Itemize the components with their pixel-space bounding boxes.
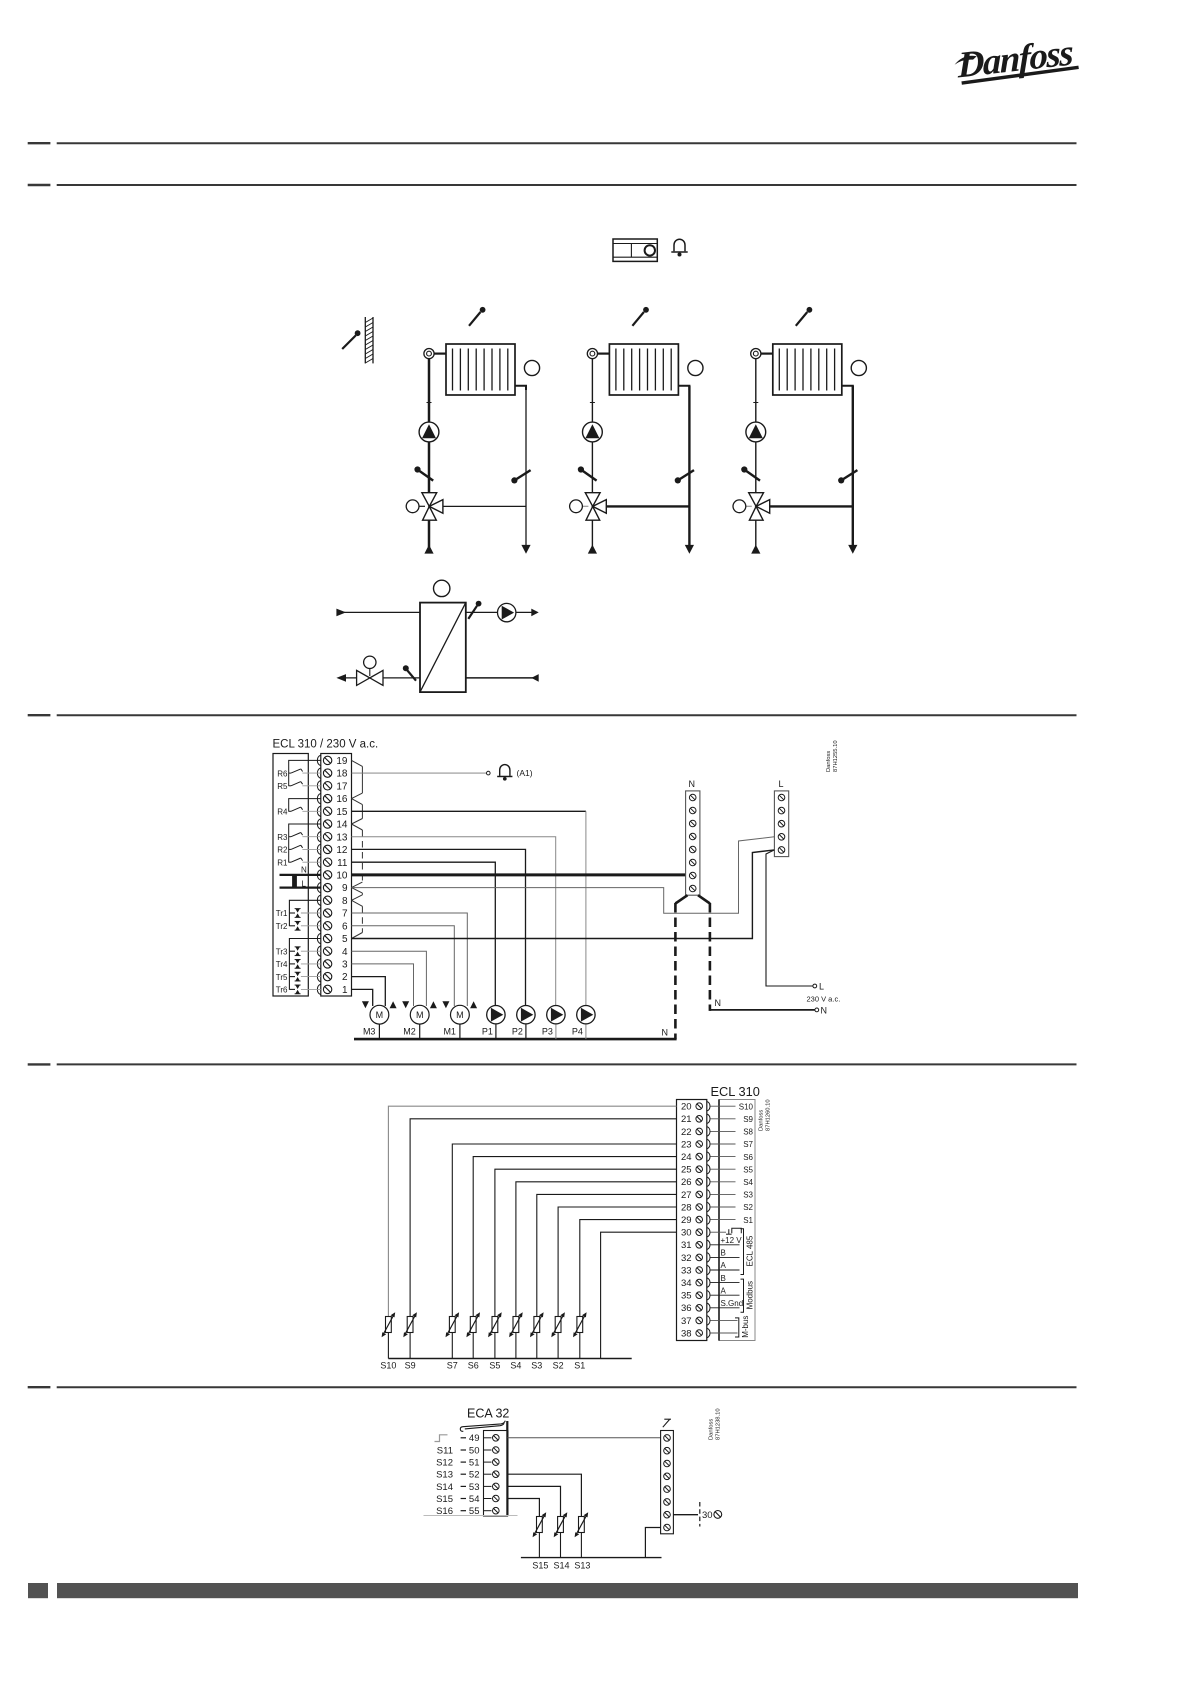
- svg-text:R2: R2: [277, 846, 288, 855]
- terminal 16: [317, 793, 348, 805]
- ECA terminal 54: [436, 1494, 499, 1505]
- svg-text:R5: R5: [277, 782, 288, 791]
- svg-text:87H1255.10: 87H1255.10: [833, 740, 839, 772]
- svg-text:18: 18: [336, 769, 348, 780]
- terminal 9: [317, 882, 348, 894]
- controller icon: [613, 239, 657, 261]
- svg-text:Tr4: Tr4: [276, 960, 288, 969]
- sensor S7: [446, 1312, 460, 1370]
- c2 return sensor on pipe: [675, 470, 694, 483]
- svg-text:M3: M3: [363, 1026, 376, 1036]
- c3 room unit: [851, 360, 866, 375]
- svg-text:R4: R4: [277, 808, 288, 817]
- Danfoss logo: [952, 32, 1079, 87]
- terminal 36: [681, 1303, 710, 1314]
- triac Tr1: [276, 909, 321, 919]
- wire 27 to sensor S3: [537, 1194, 677, 1317]
- svg-text:P1: P1: [482, 1026, 493, 1036]
- terminal 22: [681, 1127, 710, 1138]
- terminal 17: [317, 781, 348, 793]
- triac Tr3: [276, 947, 321, 957]
- terminal 18: [317, 768, 348, 780]
- svg-text:5: 5: [342, 934, 348, 945]
- svg-text:ECL 485: ECL 485: [746, 1235, 755, 1266]
- c3 valve actuator: [733, 500, 752, 513]
- sensor S14: [553, 1512, 569, 1570]
- sensor S6: [466, 1312, 480, 1370]
- room panel ground wire: [645, 1528, 660, 1558]
- ECA terminal 51: [436, 1458, 499, 1469]
- ECA terminal 53: [436, 1482, 499, 1493]
- sensor S2: [551, 1312, 565, 1370]
- wire 53 to sensor S14: [507, 1486, 560, 1517]
- io row A Modbus: [711, 1286, 740, 1295]
- actuator M3: [362, 1001, 397, 1039]
- svg-text:14: 14: [336, 820, 348, 831]
- N wire to supply: [710, 1009, 815, 1011]
- svg-text:N: N: [301, 866, 307, 875]
- svg-text:26: 26: [681, 1177, 692, 1188]
- c3 flow sensor on pipe: [741, 466, 760, 480]
- dashed separation: [699, 1502, 701, 1527]
- svg-text:16: 16: [336, 794, 348, 805]
- wire 20 to sensor S10: [388, 1106, 676, 1317]
- dhw hot water line: [466, 611, 532, 613]
- c2 flow sensor on pipe: [578, 466, 597, 480]
- svg-text:L: L: [819, 981, 824, 991]
- divider rule 5: [57, 1386, 1077, 1388]
- svg-text:ECL 310: ECL 310: [711, 1084, 760, 1099]
- io row S8: [711, 1128, 754, 1137]
- c2 pump: [583, 422, 603, 442]
- io row S7: [711, 1140, 754, 1149]
- heating circuit 1: [406, 307, 539, 554]
- svg-text:50: 50: [469, 1445, 480, 1456]
- room panel switch symbol: [663, 1419, 671, 1427]
- dhw return arrow left: [336, 674, 346, 682]
- terminal 12: [317, 844, 348, 856]
- relay box: [273, 754, 308, 997]
- wire 9 to L strip: [352, 837, 775, 914]
- svg-text:Danfoss: Danfoss: [709, 1419, 715, 1440]
- pump P4: [572, 1006, 595, 1040]
- c1 mixing valve M1: [422, 493, 443, 521]
- terminal 8: [317, 895, 348, 907]
- ECA terminal strip 49-55: [484, 1431, 508, 1517]
- svg-text:N: N: [715, 998, 722, 1008]
- svg-text:20: 20: [681, 1102, 692, 1113]
- c2 bypass line: [606, 505, 689, 507]
- dhw circulation pump: [497, 603, 516, 621]
- terminal 13: [317, 832, 348, 844]
- sensor S15: [532, 1512, 548, 1570]
- svg-text:37: 37: [681, 1316, 692, 1327]
- divider rule 5 tick: [28, 1386, 51, 1388]
- terminal strip 1-19: [321, 754, 352, 997]
- wire 6 to M1: [352, 926, 455, 1006]
- heating circuit 2: [570, 307, 703, 554]
- c3 supply pipe: [755, 359, 757, 493]
- c3 bypass line: [770, 505, 853, 507]
- c3 radiator outlet stub: [842, 386, 853, 390]
- wire 18 to alarm: [352, 772, 487, 774]
- c2 radiator outlet stub: [678, 386, 689, 390]
- actuator M1: [442, 1001, 477, 1039]
- c3 pipe tick: [753, 402, 758, 404]
- terminal 37: [681, 1316, 710, 1327]
- wire 52 to sensor S13: [507, 1474, 581, 1517]
- terminal 4: [317, 946, 348, 958]
- terminal 21: [681, 1114, 710, 1125]
- c1 flow sensor on pipe: [414, 466, 433, 480]
- svg-text:52: 52: [469, 1470, 480, 1481]
- svg-text:L: L: [779, 779, 784, 789]
- svg-text:23: 23: [681, 1139, 692, 1150]
- wire 10 N bus: [352, 873, 687, 876]
- svg-text:S15: S15: [532, 1561, 548, 1571]
- svg-text:S12: S12: [436, 1458, 453, 1469]
- svg-text:R1: R1: [277, 858, 288, 867]
- svg-text:Danfoss: Danfoss: [759, 1110, 765, 1131]
- wire 49 to room panel: [507, 1437, 660, 1439]
- c1 supply pipe: [428, 359, 431, 493]
- svg-text:S15: S15: [436, 1494, 453, 1505]
- triac Tr4: [276, 960, 321, 970]
- terminal 2: [317, 971, 348, 983]
- c1 pump: [419, 422, 439, 442]
- c2 radiator: [609, 344, 678, 395]
- mains N line: [280, 874, 321, 876]
- room panel strip: [661, 1431, 674, 1534]
- svg-text:Danfoss: Danfoss: [826, 751, 832, 772]
- sensor S9: [403, 1312, 417, 1370]
- terminal 20: [681, 1101, 710, 1112]
- c3 radiator: [773, 344, 842, 395]
- ECA terminal 52: [436, 1470, 499, 1481]
- svg-text:17: 17: [336, 781, 348, 792]
- wire 25 to sensor S5: [495, 1169, 677, 1317]
- svg-text:11: 11: [337, 858, 348, 869]
- c2 mixing valve M2: [585, 493, 606, 521]
- terminal 1: [317, 984, 348, 996]
- c2 return arrow: [685, 545, 694, 554]
- svg-text:S11: S11: [437, 1445, 453, 1456]
- alarm bell A1: [497, 765, 512, 781]
- c3 return arrow: [848, 545, 857, 554]
- c1 flow sensor: [469, 307, 486, 326]
- ECA terminal 55: [436, 1506, 499, 1517]
- c2 supply arrow: [588, 545, 597, 554]
- svg-text:+12 V: +12 V: [721, 1236, 743, 1245]
- terminal 6: [317, 921, 348, 933]
- N strip split diagonals: [675, 895, 687, 903]
- svg-text:2: 2: [342, 972, 348, 983]
- svg-text:N: N: [662, 1028, 669, 1038]
- relay contact R3: [277, 833, 321, 842]
- svg-text:S13: S13: [436, 1470, 453, 1481]
- wire 13 to P3: [352, 837, 556, 1006]
- io row B ECL485: [711, 1249, 740, 1258]
- outdoor sensor S1: [342, 330, 360, 349]
- wire 54 to sensor S15: [507, 1499, 539, 1518]
- io row A ECL485: [711, 1261, 740, 1270]
- terminal strip 20-38: [677, 1100, 707, 1341]
- wire 28 to sensor S2: [558, 1207, 676, 1317]
- svg-text:8: 8: [342, 896, 348, 907]
- dhw supply arrow: [336, 609, 346, 617]
- terminal 30: [681, 1227, 710, 1238]
- svg-text:51: 51: [469, 1458, 480, 1469]
- bracket ECL 485: [741, 1229, 744, 1275]
- svg-text:Tr2: Tr2: [276, 922, 288, 931]
- sensor S5: [488, 1312, 502, 1370]
- svg-text:ECA 32: ECA 32: [467, 1407, 509, 1421]
- io row S5: [711, 1165, 754, 1174]
- svg-text:10: 10: [336, 871, 348, 882]
- svg-text:A: A: [721, 1286, 727, 1295]
- c3 air vent: [751, 349, 773, 359]
- supply L circle: [813, 984, 817, 988]
- c1 room unit: [524, 360, 539, 375]
- wire 1 to M3: [352, 989, 373, 1006]
- terminal 25: [681, 1164, 710, 1175]
- svg-text:30: 30: [681, 1228, 692, 1239]
- wire 23 to sensor S7: [452, 1144, 676, 1317]
- svg-text:27: 27: [681, 1190, 692, 1201]
- divider rule 3: [57, 714, 1077, 716]
- footer bar: [57, 1583, 1078, 1598]
- svg-text:Tr3: Tr3: [276, 947, 288, 956]
- mains L line: [280, 886, 321, 888]
- io row 37 M-bus: [711, 1319, 738, 1321]
- svg-text:Modbus: Modbus: [746, 1281, 755, 1309]
- relay contact R2: [277, 845, 321, 854]
- heating circuit 3: [733, 307, 866, 554]
- relay contact R1: [277, 858, 321, 867]
- terminal 30 screw: [714, 1511, 722, 1519]
- svg-text:6: 6: [342, 921, 348, 932]
- dhw valve: [357, 670, 383, 685]
- svg-text:1: 1: [342, 985, 348, 996]
- triac Tr6: [276, 985, 321, 995]
- dhw hot water arrow: [531, 609, 538, 617]
- wire 15 to P4: [352, 810, 586, 812]
- svg-text:S1: S1: [743, 1216, 753, 1225]
- dhw cold water line: [466, 677, 539, 679]
- terminal 5: [317, 933, 348, 945]
- terminal 24: [681, 1152, 710, 1163]
- io row B Modbus: [711, 1274, 740, 1283]
- terminal 10: [317, 870, 348, 882]
- io row +12 V ECL485: [711, 1236, 743, 1245]
- sensor S1: [573, 1312, 587, 1370]
- svg-text:P2: P2: [512, 1026, 523, 1036]
- io row S.Gnd Modbus: [711, 1299, 744, 1308]
- ECA input switch symbol: [435, 1435, 448, 1442]
- c2 pipe tick: [590, 402, 595, 404]
- c3 flow sensor: [796, 307, 813, 326]
- dhw supply line: [344, 611, 420, 613]
- svg-text:24: 24: [681, 1152, 692, 1163]
- c3 return pipe: [852, 386, 854, 545]
- pump P3: [542, 1006, 565, 1040]
- terminal 3: [317, 959, 348, 971]
- svg-text:9: 9: [342, 883, 348, 894]
- bracket Modbus: [741, 1279, 744, 1312]
- svg-text:P3: P3: [542, 1026, 553, 1036]
- svg-text:Tr6: Tr6: [276, 986, 288, 995]
- svg-text:S1: S1: [574, 1361, 585, 1371]
- sensor S4: [509, 1312, 523, 1370]
- svg-text:S6: S6: [468, 1361, 479, 1371]
- relay common 14 to R3 R2 R1: [289, 824, 321, 863]
- io row S3: [711, 1191, 754, 1200]
- Danfoss code 87H1255.10: [826, 740, 839, 772]
- Danfoss code 87H1238.10: [709, 1408, 722, 1440]
- svg-text:S2: S2: [743, 1203, 753, 1212]
- wire 26 to sensor S4: [516, 1182, 677, 1317]
- wire 4 to M2: [352, 951, 427, 1006]
- io row S4: [711, 1178, 754, 1187]
- wire 30 to sensor common: [601, 1232, 677, 1358]
- terminal 27: [681, 1190, 710, 1201]
- svg-text:12: 12: [336, 845, 348, 856]
- c3 return sensor on pipe: [838, 470, 857, 483]
- svg-text:S14: S14: [436, 1482, 453, 1493]
- terminal 19: [317, 755, 348, 767]
- wire 11 to P1: [352, 862, 496, 1005]
- c2 return pipe: [688, 386, 690, 545]
- L terminal strip: [774, 791, 788, 857]
- wire 12 to P2: [352, 849, 526, 1005]
- c1 radiator outlet stub: [515, 386, 526, 390]
- c2 flow sensor: [632, 307, 648, 326]
- N dashed drop right: [709, 903, 712, 1011]
- wire 2 to M3: [352, 977, 386, 1006]
- dhw return line left: [345, 677, 421, 679]
- terminal 26: [681, 1177, 710, 1188]
- svg-text:S6: S6: [743, 1153, 753, 1162]
- c2 air vent: [587, 349, 609, 359]
- relay contact R6: [277, 769, 321, 778]
- c1 air vent: [424, 349, 446, 359]
- relay common 16 to R4: [289, 799, 321, 812]
- dhw valve actuator: [364, 656, 376, 676]
- ECA terminal 49: [461, 1433, 500, 1444]
- svg-text:S10: S10: [380, 1361, 396, 1371]
- svg-text:L: L: [302, 879, 307, 888]
- svg-text:15: 15: [336, 807, 348, 818]
- relay contact R5: [277, 782, 321, 791]
- alarm terminal circle: [487, 771, 491, 775]
- dhw flow sensor: [468, 601, 481, 619]
- io row S1: [711, 1216, 754, 1225]
- svg-text:S3: S3: [743, 1191, 753, 1200]
- svg-text:87H1238.10: 87H1238.10: [716, 1408, 722, 1440]
- header rule 2: [57, 184, 1077, 186]
- pump P2: [512, 1006, 535, 1040]
- svg-text:N: N: [689, 779, 696, 789]
- svg-text:25: 25: [681, 1165, 692, 1176]
- c3 pipe below valve: [755, 520, 757, 547]
- terminal 28: [681, 1202, 710, 1213]
- svg-text:53: 53: [469, 1482, 480, 1493]
- actuator M2: [402, 1001, 437, 1039]
- wire 29 to sensor S1: [580, 1220, 677, 1317]
- wire 3 to M2: [352, 964, 414, 1006]
- io row S9: [711, 1115, 754, 1124]
- svg-text:38: 38: [681, 1328, 692, 1339]
- svg-text:S9: S9: [405, 1361, 416, 1371]
- cable decoration: [460, 1421, 505, 1432]
- relay contact R4: [277, 807, 321, 816]
- dhw return sensor: [403, 665, 416, 680]
- svg-text:S5: S5: [743, 1165, 753, 1174]
- svg-text:31: 31: [681, 1240, 692, 1251]
- svg-text:33: 33: [681, 1265, 692, 1276]
- svg-text:M-bus: M-bus: [741, 1316, 750, 1338]
- svg-text:Tr1: Tr1: [276, 909, 288, 918]
- svg-text:4: 4: [342, 947, 348, 958]
- svg-text:S7: S7: [447, 1361, 458, 1371]
- c1 bypass line: [443, 505, 526, 507]
- svg-text:35: 35: [681, 1291, 692, 1302]
- svg-text:34: 34: [681, 1278, 692, 1289]
- svg-text:32: 32: [681, 1253, 692, 1264]
- wire 7 to M1: [352, 913, 468, 1006]
- header rule 2 tick: [28, 184, 51, 186]
- sensor common bus: [388, 1358, 631, 1360]
- svg-text:S9: S9: [743, 1115, 753, 1124]
- header rule 1 tick: [28, 142, 51, 144]
- ECA module bottom edge: [424, 1515, 518, 1517]
- terminal 15: [317, 806, 348, 818]
- heat exchanger: [420, 603, 466, 693]
- svg-text:S3: S3: [531, 1361, 542, 1371]
- c3 supply arrow: [751, 545, 760, 554]
- triac Tr5: [276, 972, 321, 982]
- c1 return sensor on pipe: [511, 470, 530, 483]
- triac Tr2: [276, 921, 321, 931]
- svg-text:22: 22: [681, 1127, 692, 1138]
- outdoor wall: [365, 317, 373, 363]
- divider rule 4 tick: [28, 1063, 51, 1065]
- svg-text:S14: S14: [553, 1561, 569, 1571]
- c1 return arrow: [521, 545, 530, 554]
- svg-text:N: N: [821, 1005, 828, 1015]
- c2 room unit: [688, 360, 703, 375]
- sensor S3: [530, 1312, 544, 1370]
- svg-text:87H1260.10: 87H1260.10: [766, 1099, 772, 1131]
- svg-text:Danfoss: Danfoss: [957, 32, 1074, 86]
- c1 radiator: [446, 344, 515, 395]
- c1 pipe tick: [427, 402, 432, 404]
- terminal 14: [317, 819, 348, 831]
- mains bar: [292, 874, 297, 888]
- svg-text:7: 7: [342, 909, 348, 920]
- terminal 32: [681, 1253, 710, 1264]
- svg-text:M2: M2: [403, 1026, 416, 1036]
- terminal 23: [681, 1139, 710, 1150]
- pump P1: [482, 1006, 505, 1040]
- N dashed drop left: [674, 903, 677, 1039]
- io row shield 30: [711, 1228, 742, 1234]
- divider rule 4: [57, 1063, 1077, 1065]
- svg-text:21: 21: [681, 1114, 692, 1125]
- io row 38 M-bus: [711, 1332, 738, 1334]
- svg-text:S4: S4: [510, 1361, 521, 1371]
- svg-text:Tr5: Tr5: [276, 973, 288, 982]
